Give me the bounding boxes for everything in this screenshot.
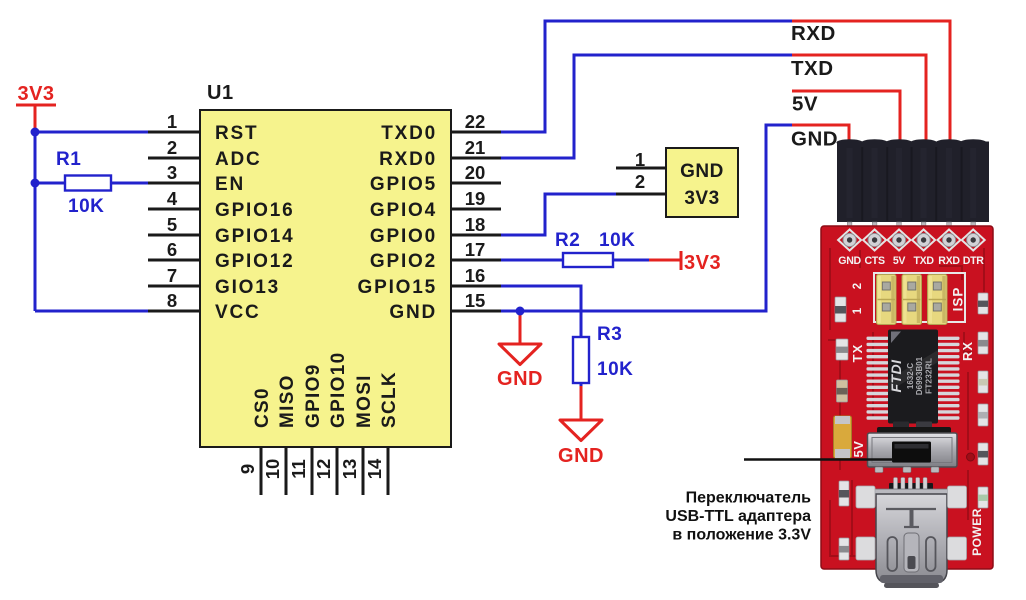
svg-text:CTS: CTS	[864, 255, 885, 267]
svg-text:1: 1	[167, 111, 177, 132]
svg-text:5: 5	[167, 214, 177, 235]
svg-text:GIO13: GIO13	[215, 277, 280, 298]
svg-text:7: 7	[167, 265, 177, 286]
svg-text:RST: RST	[215, 123, 258, 144]
svg-text:GND: GND	[680, 161, 724, 182]
svg-text:MISO: MISO	[277, 374, 298, 428]
svg-text:GND: GND	[558, 445, 604, 467]
svg-text:19: 19	[465, 188, 486, 209]
svg-text:R1: R1	[56, 149, 81, 170]
svg-text:GPIO4: GPIO4	[370, 200, 437, 221]
svg-text:12: 12	[313, 459, 334, 480]
svg-text:GPIO12: GPIO12	[215, 251, 294, 272]
svg-text:GND: GND	[838, 255, 861, 267]
svg-text:ADC: ADC	[215, 149, 262, 170]
svg-text:GND: GND	[497, 368, 543, 390]
svg-text:GPIO16: GPIO16	[215, 200, 294, 221]
svg-text:GPIO9: GPIO9	[303, 363, 324, 428]
svg-text:2: 2	[167, 137, 177, 158]
svg-text:Переключатель: Переключатель	[686, 490, 812, 507]
svg-text:10K: 10K	[68, 196, 104, 217]
svg-text:POWER: POWER	[970, 508, 984, 556]
svg-text:GND: GND	[389, 302, 437, 323]
svg-text:TX: TX	[850, 344, 865, 363]
svg-text:RXD0: RXD0	[379, 149, 437, 170]
svg-text:GPIO14: GPIO14	[215, 226, 294, 247]
svg-text:GPIO0: GPIO0	[370, 226, 437, 247]
svg-text:R2: R2	[555, 230, 580, 251]
svg-text:ISP: ISP	[951, 287, 966, 312]
svg-text:21: 21	[465, 137, 486, 158]
svg-text:10: 10	[262, 459, 283, 480]
svg-text:RX: RX	[960, 341, 975, 361]
svg-text:TXD: TXD	[913, 255, 934, 267]
svg-text:DTR: DTR	[963, 255, 985, 267]
svg-text:17: 17	[465, 239, 486, 260]
svg-text:R3: R3	[597, 324, 622, 345]
svg-text:RXD: RXD	[791, 22, 836, 45]
svg-text:GND: GND	[791, 128, 838, 151]
svg-text:13: 13	[339, 459, 360, 480]
svg-text:3V3: 3V3	[684, 188, 719, 209]
svg-text:CS0: CS0	[252, 387, 273, 428]
svg-text:14: 14	[364, 458, 385, 479]
svg-text:GPIO15: GPIO15	[358, 277, 437, 298]
svg-text:5V: 5V	[792, 93, 818, 116]
svg-text:5V: 5V	[851, 441, 866, 458]
svg-text:3V3: 3V3	[684, 252, 721, 274]
svg-text:15: 15	[465, 290, 486, 311]
svg-text:TXD0: TXD0	[381, 123, 437, 144]
svg-text:FT232RL: FT232RL	[924, 358, 934, 394]
svg-text:3: 3	[167, 162, 177, 183]
svg-text:10K: 10K	[597, 359, 633, 380]
svg-text:8: 8	[167, 290, 177, 311]
svg-text:FTDI: FTDI	[888, 359, 904, 393]
svg-text:1: 1	[852, 307, 864, 314]
svg-text:9: 9	[237, 464, 258, 474]
svg-text:18: 18	[465, 214, 486, 235]
svg-text:4: 4	[167, 188, 178, 209]
svg-text:11: 11	[288, 459, 309, 479]
svg-text:MOSI: MOSI	[354, 374, 375, 428]
svg-text:GPIO5: GPIO5	[370, 174, 437, 195]
svg-text:2: 2	[635, 171, 645, 192]
svg-text:10K: 10K	[599, 230, 635, 251]
svg-text:USB-TTL адаптера: USB-TTL адаптера	[665, 508, 811, 525]
svg-text:RXD: RXD	[938, 255, 960, 267]
svg-text:3V3: 3V3	[17, 83, 54, 105]
svg-text:6: 6	[167, 239, 177, 260]
svg-text:1: 1	[635, 149, 645, 170]
svg-text:22: 22	[465, 111, 486, 132]
svg-text:в положение 3.3V: в положение 3.3V	[672, 527, 811, 544]
svg-text:5V: 5V	[893, 255, 906, 267]
svg-text:TXD: TXD	[791, 57, 834, 80]
svg-text:1632-C: 1632-C	[906, 363, 915, 389]
svg-text:VCC: VCC	[215, 302, 261, 323]
svg-text:U1: U1	[207, 82, 234, 104]
svg-text:GPIO2: GPIO2	[370, 251, 437, 272]
svg-text:EN: EN	[215, 174, 245, 195]
svg-text:16: 16	[465, 265, 486, 286]
svg-text:GPIO10: GPIO10	[328, 352, 349, 428]
svg-text:20: 20	[465, 162, 486, 183]
svg-text:SCLK: SCLK	[379, 371, 400, 428]
svg-text:2: 2	[852, 283, 864, 289]
